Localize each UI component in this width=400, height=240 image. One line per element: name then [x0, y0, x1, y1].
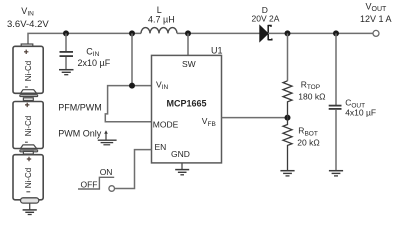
svg-text:L: L [157, 5, 162, 15]
svg-text:20V 2A: 20V 2A [252, 14, 280, 24]
diode D schottky [252, 5, 280, 41]
capacitor CIN [60, 33, 111, 69]
svg-text:12V 1 A: 12V 1 A [360, 14, 392, 24]
svg-text:Ni-Cd: Ni-Cd [24, 116, 33, 136]
svg-text:ON: ON [100, 167, 113, 177]
svg-text:180 kΩ: 180 kΩ [298, 92, 325, 102]
svg-text:GND: GND [171, 149, 190, 159]
svg-text:4x10 µF: 4x10 µF [345, 108, 376, 118]
node VIN label [7, 6, 49, 30]
ground (RBOT) [280, 171, 294, 176]
svg-text:SW: SW [182, 59, 196, 69]
svg-text:RBOT: RBOT [298, 126, 318, 138]
ground (battery) [23, 210, 37, 215]
inductor L [141, 5, 177, 33]
svg-text:Ni-Cd: Ni-Cd [24, 168, 33, 188]
wire VFB [222, 117, 288, 119]
wire SW drop [187, 33, 189, 55]
svg-text:20 kΩ: 20 kΩ [297, 138, 319, 148]
capacitor COUT [329, 33, 376, 170]
battery cell B3 [13, 151, 43, 203]
junction dot VIN [129, 83, 135, 89]
svg-text:MCP1665: MCP1665 [167, 98, 207, 108]
ground (COUT) [329, 171, 343, 176]
node VOUT terminal [360, 2, 392, 37]
op-amp U1 MCP1665 box [152, 45, 223, 163]
battery cell B1 [13, 44, 43, 97]
wire [29, 203, 31, 209]
svg-text:2x10 µF: 2x10 µF [78, 58, 111, 68]
wire EN [115, 150, 152, 189]
svg-text:U1: U1 [211, 45, 223, 55]
svg-text:VIN: VIN [21, 6, 34, 18]
ground (PWM only option) with arrow [98, 130, 117, 145]
wire [268, 32, 373, 34]
svg-text:PWM Only: PWM Only [58, 129, 102, 139]
switch SW1 on/off [78, 167, 114, 191]
wire VIN drop [131, 33, 133, 85]
svg-text:3.6V-4.2V: 3.6V-4.2V [7, 19, 49, 30]
wire MODE jumper [105, 86, 151, 122]
battery cell B2 [13, 98, 43, 152]
ground (CIN) [59, 70, 74, 75]
svg-text:4.7 µH: 4.7 µH [148, 15, 175, 25]
junction dot VFB [285, 115, 291, 121]
svg-text:CIN: CIN [86, 46, 99, 58]
svg-text:Ni-Cd: Ni-Cd [24, 61, 33, 81]
svg-text:VOUT: VOUT [366, 2, 388, 14]
svg-text:MODE: MODE [153, 120, 179, 130]
svg-text:OFF: OFF [81, 180, 98, 190]
junction dots top rail [63, 30, 69, 36]
svg-text:RTOP: RTOP [301, 79, 320, 91]
resistor RBOT [283, 118, 320, 170]
wire [177, 32, 260, 34]
svg-text:EN: EN [155, 142, 167, 152]
resistor RTOP [283, 33, 325, 117]
ground (U1 GND) [175, 163, 189, 175]
wire [28, 33, 141, 44]
svg-text:PFM/PWM: PFM/PWM [58, 103, 102, 113]
